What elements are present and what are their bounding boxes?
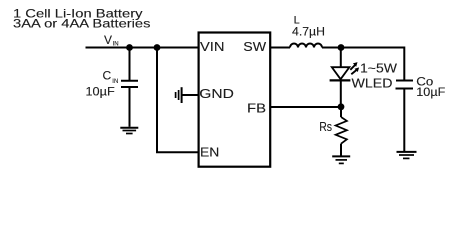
svg-text:FB: FB	[247, 101, 266, 116]
wire EN loop vertical	[156, 48, 158, 153]
note battery types	[13, 7, 151, 31]
wire inductor to corner	[322, 47, 404, 49]
wire Co to ground	[403, 89, 405, 152]
resistor Rs	[336, 117, 347, 144]
wire EN loop horizontal	[156, 151, 198, 153]
ground below Co	[397, 152, 417, 159]
svg-text:VIN: VIN	[200, 39, 225, 54]
svg-text:EN: EN	[200, 145, 219, 160]
wire FB	[270, 106, 341, 108]
wire LED cathode	[340, 80, 342, 106]
junction Cin tap	[126, 44, 133, 51]
ground below Rs	[332, 156, 350, 163]
svg-text:V: V	[104, 33, 112, 47]
wire Cin branch upper	[129, 48, 131, 81]
node VIN label	[104, 33, 119, 48]
LED emission arrow 1	[350, 62, 357, 70]
wire resistor to ground	[340, 144, 342, 156]
wire corner to Co	[403, 47, 405, 81]
ground rotated at GND pin	[176, 87, 182, 103]
inductor L	[290, 44, 322, 48]
wire LED anode	[340, 48, 342, 68]
label CIN	[103, 69, 119, 86]
svg-text:Rs: Rs	[319, 119, 332, 134]
wire SW to inductor	[270, 47, 290, 49]
LED emission arrow 2	[351, 67, 359, 74]
svg-text:GND: GND	[199, 86, 234, 101]
capacitor Co	[396, 81, 414, 89]
IC U1 body	[199, 33, 271, 167]
svg-text:3AA or 4AA Batteries: 3AA or 4AA Batteries	[13, 16, 151, 30]
svg-text:10µF: 10µF	[86, 85, 115, 99]
junction SW node	[338, 44, 345, 51]
svg-text:10µF: 10µF	[416, 85, 445, 99]
LED WLED	[330, 67, 351, 80]
svg-text:C: C	[103, 69, 112, 83]
svg-text:WLED: WLED	[352, 75, 393, 90]
ground below Cin	[120, 128, 138, 134]
wire VIN rail	[86, 47, 199, 49]
capacitor CIN	[121, 81, 138, 87]
svg-text:1~5W: 1~5W	[360, 61, 398, 76]
junction EN tap	[154, 44, 161, 51]
wire Cin branch lower	[129, 87, 131, 127]
wire GND stub	[182, 94, 198, 96]
wire FB node to resistor	[340, 106, 342, 117]
svg-text:4.7µH: 4.7µH	[292, 25, 325, 39]
svg-text:SW: SW	[243, 39, 267, 54]
junction FB node	[338, 103, 345, 110]
